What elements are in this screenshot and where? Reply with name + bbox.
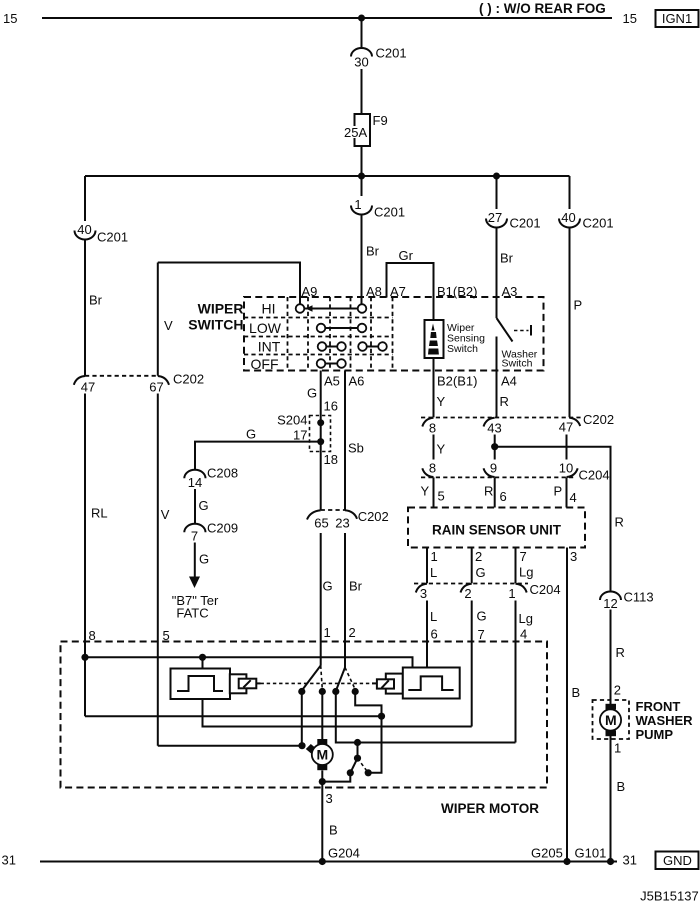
svg-text:S204: S204	[277, 413, 307, 428]
svg-text:RAIN SENSOR UNIT: RAIN SENSOR UNIT	[432, 523, 562, 538]
svg-text:40: 40	[561, 210, 575, 225]
svg-text:C201: C201	[97, 230, 128, 245]
svg-text:7: 7	[478, 627, 485, 642]
svg-text:17: 17	[293, 427, 307, 442]
svg-text:14: 14	[188, 475, 202, 490]
svg-text:Y: Y	[437, 442, 446, 457]
svg-text:25A: 25A	[344, 125, 367, 140]
svg-text:IGN1: IGN1	[662, 11, 692, 26]
svg-text:V: V	[164, 318, 173, 333]
svg-text:3: 3	[570, 549, 577, 564]
svg-text:C113: C113	[624, 590, 654, 605]
svg-text:B: B	[329, 823, 338, 838]
svg-text:3: 3	[420, 586, 427, 601]
svg-text:G205: G205	[531, 846, 563, 861]
svg-text:G: G	[199, 552, 209, 567]
svg-text:Lg: Lg	[519, 565, 533, 580]
svg-text:7: 7	[191, 529, 198, 544]
svg-text:Br: Br	[89, 293, 103, 308]
svg-text:Y: Y	[437, 394, 446, 409]
svg-text:Switch: Switch	[447, 343, 478, 355]
svg-text:INT: INT	[258, 339, 281, 355]
svg-text:1: 1	[508, 586, 515, 601]
svg-text:L: L	[430, 609, 437, 624]
svg-text:WASHER: WASHER	[636, 713, 694, 728]
svg-text:A4: A4	[501, 374, 517, 389]
svg-text:WIPER: WIPER	[198, 301, 244, 317]
svg-text:G: G	[323, 579, 333, 594]
svg-text:A8: A8	[366, 284, 382, 299]
svg-text:C201: C201	[376, 46, 407, 61]
svg-text:Gr: Gr	[399, 248, 414, 263]
svg-text:( ) : W/O REAR FOG: ( ) : W/O REAR FOG	[479, 1, 606, 16]
svg-text:Sb: Sb	[348, 441, 364, 456]
svg-text:8: 8	[429, 461, 436, 476]
svg-text:A5: A5	[324, 374, 340, 389]
svg-text:P: P	[574, 298, 583, 313]
svg-text:2: 2	[614, 683, 621, 698]
svg-text:27: 27	[488, 210, 502, 225]
svg-text:7: 7	[520, 549, 527, 564]
svg-text:J5B15137: J5B15137	[640, 889, 699, 904]
svg-text:A9: A9	[302, 284, 318, 299]
svg-text:C209: C209	[207, 521, 238, 536]
svg-text:SWITCH: SWITCH	[188, 317, 243, 333]
svg-text:OFF: OFF	[251, 356, 279, 372]
svg-text:G: G	[246, 427, 256, 442]
svg-text:R: R	[616, 645, 625, 660]
svg-text:RL: RL	[91, 506, 108, 521]
svg-text:Lg: Lg	[519, 611, 533, 626]
svg-text:8: 8	[89, 628, 96, 643]
svg-text:6: 6	[431, 627, 438, 642]
svg-text:47: 47	[559, 420, 573, 435]
svg-text:G: G	[476, 565, 486, 580]
svg-text:B1(B2): B1(B2)	[437, 284, 477, 299]
svg-text:C204: C204	[579, 468, 610, 483]
svg-text:1: 1	[614, 741, 621, 756]
svg-text:P: P	[554, 484, 563, 499]
svg-text:5: 5	[163, 628, 170, 643]
svg-text:9: 9	[490, 461, 497, 476]
svg-text:67: 67	[149, 380, 163, 395]
svg-text:Br: Br	[349, 579, 363, 594]
svg-text:R: R	[484, 484, 493, 499]
svg-text:C202: C202	[583, 412, 614, 427]
svg-text:LOW: LOW	[249, 320, 282, 336]
svg-text:F9: F9	[373, 113, 388, 128]
svg-text:16: 16	[324, 399, 338, 414]
svg-text:C202: C202	[173, 372, 204, 387]
svg-text:4: 4	[570, 490, 577, 505]
svg-text:18: 18	[324, 452, 338, 467]
svg-text:1: 1	[354, 197, 361, 212]
svg-text:R: R	[615, 515, 624, 530]
svg-text:43: 43	[487, 421, 501, 436]
svg-text:PUMP: PUMP	[636, 727, 674, 742]
svg-text:15: 15	[623, 11, 637, 26]
svg-text:FATC: FATC	[176, 605, 208, 620]
svg-text:A3: A3	[502, 284, 518, 299]
svg-text:23: 23	[335, 516, 349, 531]
svg-text:Br: Br	[500, 251, 514, 266]
svg-text:M: M	[605, 712, 617, 728]
svg-text:G: G	[307, 386, 317, 401]
svg-text:A6: A6	[349, 374, 365, 389]
svg-text:1: 1	[324, 625, 331, 640]
svg-text:V: V	[161, 507, 170, 522]
svg-text:10: 10	[559, 461, 573, 476]
svg-text:47: 47	[81, 380, 95, 395]
svg-text:G: G	[477, 609, 487, 624]
svg-text:B2(B1): B2(B1)	[437, 374, 477, 389]
svg-text:HI: HI	[262, 301, 276, 317]
svg-text:12: 12	[603, 596, 617, 611]
svg-text:C202: C202	[358, 509, 389, 524]
svg-text:Y: Y	[421, 484, 430, 499]
svg-text:15: 15	[3, 11, 17, 26]
svg-text:2: 2	[464, 586, 471, 601]
svg-text:B: B	[617, 779, 626, 794]
svg-text:4: 4	[520, 627, 527, 642]
svg-text:C204: C204	[530, 582, 561, 597]
svg-text:6: 6	[500, 489, 507, 504]
svg-text:Br: Br	[366, 244, 380, 259]
svg-text:B: B	[572, 685, 581, 700]
svg-text:31: 31	[2, 853, 16, 868]
svg-text:8: 8	[429, 421, 436, 436]
svg-text:40: 40	[77, 222, 91, 237]
svg-text:2: 2	[349, 625, 356, 640]
svg-text:G101: G101	[575, 846, 607, 861]
svg-text:FRONT: FRONT	[636, 699, 681, 714]
svg-text:M: M	[316, 746, 328, 762]
svg-text:WIPER MOTOR: WIPER MOTOR	[441, 801, 539, 816]
svg-text:C208: C208	[207, 466, 238, 481]
svg-text:65: 65	[314, 516, 328, 531]
svg-text:5: 5	[438, 489, 445, 504]
svg-text:31: 31	[623, 853, 637, 868]
svg-text:A7: A7	[390, 284, 406, 299]
svg-text:C201: C201	[374, 205, 405, 220]
svg-text:3: 3	[326, 791, 333, 806]
svg-text:Switch: Switch	[502, 358, 533, 370]
svg-text:L: L	[430, 565, 437, 580]
svg-text:G: G	[199, 498, 209, 513]
svg-text:GND: GND	[663, 853, 692, 868]
svg-text:R: R	[500, 394, 509, 409]
svg-text:C201: C201	[583, 216, 614, 231]
svg-text:2: 2	[475, 549, 482, 564]
svg-text:G204: G204	[328, 846, 360, 861]
svg-text:C201: C201	[510, 216, 541, 231]
svg-text:30: 30	[354, 55, 368, 70]
svg-text:1: 1	[431, 549, 438, 564]
